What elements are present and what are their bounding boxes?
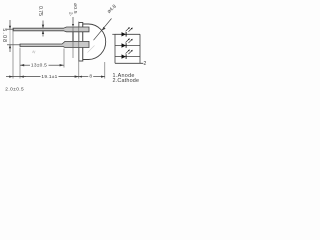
left bus — [114, 34, 116, 63]
extension line x=104.8 (dome tip) — [104, 62, 106, 79]
background — [0, 0, 150, 94]
svg-text:8: 8 — [89, 73, 92, 79]
row 2 wire — [115, 45, 140, 47]
dimension 5.08 (lead spacing) — [7, 20, 21, 52]
dimension 13±0.5 — [20, 64, 30, 66]
LED body (cylinder + dome) — [83, 24, 106, 60]
LED chip D1 (top branch, anode left / cathode right, with emission arrows) — [122, 27, 133, 36]
faint artifact mark — [33, 51, 36, 53]
LED chip D3 (bottom branch, with emission arrows) — [122, 49, 133, 59]
right bus — [139, 34, 141, 63]
svg-text:5.08: 5.08 — [1, 28, 7, 43]
schematic box — [112, 34, 143, 63]
hatch shading inside dome — [88, 46, 95, 53]
svg-text:2: 2 — [144, 61, 147, 67]
svg-text:0.75: 0.75 — [37, 6, 43, 16]
dim line A (x=73) — [72, 27, 74, 58]
pin 2 lead (cathode, bottom) with internal anvil — [20, 41, 89, 47]
extension line x=20 (from cathode tip) — [19, 48, 21, 79]
svg-text:2.0±0.5: 2.0±0.5 — [5, 87, 24, 93]
dimension 19.1±1 — [13, 76, 41, 78]
row 3 wire — [115, 56, 140, 58]
extension line x=64 (kink) — [63, 49, 65, 68]
dimension 0.75 (lead thickness) — [42, 21, 44, 37]
bond wire / die post — [72, 32, 74, 42]
row 1 wire (top edge) — [115, 33, 140, 35]
LED chip D2 (middle branch, with emission arrows) — [122, 38, 133, 48]
svg-text:13±0.5: 13±0.5 — [31, 63, 47, 69]
flange (package base) — [79, 23, 83, 62]
pin 1 lead (anode, top) with internal post — [13, 27, 89, 32]
svg-text:2.Cathode: 2.Cathode — [113, 78, 140, 84]
bottom wire to pin 2 — [115, 62, 143, 64]
extension line x=13 (from anode tip) — [12, 31, 14, 79]
svg-text:19.1±1: 19.1±1 — [41, 74, 57, 80]
svg-text:ø0.5: ø0.5 — [72, 3, 78, 14]
dim line B (x=78.8 extended) — [78, 22, 80, 79]
leader line ø4.8 — [94, 19, 112, 41]
pin 1 stub — [112, 33, 115, 35]
dimension 8 (body length) — [79, 76, 89, 78]
dimension 2.0±0.5 (outside arrows) — [6, 76, 13, 78]
